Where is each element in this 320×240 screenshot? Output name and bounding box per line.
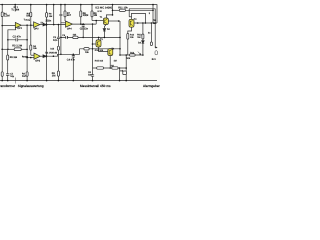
wire to R11 [113, 9, 120, 11]
resistor R6 [46, 13, 48, 18]
svg-text:1M: 1M [22, 75, 26, 78]
node OP1 output column [26, 24, 28, 26]
wire alarm exit [155, 23, 156, 48]
node x53.75 [53, 24, 55, 26]
svg-text:R15 10k: R15 10k [95, 59, 104, 62]
wire x126.2 column [125, 55, 127, 81]
resistor R1 [1, 12, 3, 17]
wire bottom ground rail [0, 80, 157, 82]
arrow into wire [138, 52, 141, 55]
resistor R11 [119, 9, 125, 11]
resistor R8b [91, 11, 93, 17]
node T3 base branch [92, 43, 94, 45]
svg-text:1M: 1M [26, 15, 29, 18]
wire C7 column from rail [60, 4, 62, 6]
node C4 top [73, 54, 75, 56]
node C5 top [82, 23, 84, 25]
wire D3 out [46, 49, 79, 56]
node R3 right [26, 49, 28, 51]
resistor R10m on mid wire [73, 36, 78, 38]
svg-text:C2 47n: C2 47n [13, 36, 22, 39]
svg-text:T.out: T.out [24, 19, 29, 22]
resistor R16 [112, 67, 118, 69]
node D1 out [46, 24, 48, 26]
svg-text:R16 10k: R16 10k [95, 49, 104, 52]
diode D1 [43, 23, 46, 26]
wire R1 to bottom [1, 17, 3, 72]
resistor R2t [30, 12, 32, 17]
resistor R4 [30, 45, 32, 50]
node R4 column top [30, 24, 32, 26]
resistor R6b [64, 11, 66, 17]
wire C3 to R8 [57, 39, 59, 47]
wire OP4 output [73, 23, 97, 25]
arrowhead exit [156, 47, 158, 49]
node R12 bottom [142, 54, 144, 56]
resistor R18 [1, 72, 3, 77]
wire OP3 output [40, 55, 43, 57]
svg-text:2,2M: 2,2M [4, 15, 10, 18]
node rail junction x2 [1, 4, 3, 6]
wire R7 column [80, 4, 82, 6]
wire mid row y48.8 [80, 48, 121, 50]
resistor R12 [142, 34, 144, 39]
wire long column x92.5 [92, 24, 94, 68]
capacitor C2 [8, 39, 27, 41]
svg-text:OP1: OP1 [17, 27, 22, 30]
wire OP1 output column down [26, 25, 28, 72]
node C3 column top [58, 24, 60, 26]
caption separator tick [15, 78, 17, 84]
node y68 x119.5 [119, 67, 121, 69]
wire T2 emitter down [128, 27, 132, 34]
svg-text:Messintervall 450 ms: Messintervall 450 ms [80, 84, 111, 88]
resistor R15 [97, 67, 104, 69]
text labels [4, 6, 157, 78]
capacitor C5 [82, 23, 84, 26]
op-amp OP1 [15, 22, 21, 28]
op-amp OP3 [34, 53, 40, 59]
wire x151.4 down [150, 23, 152, 42]
diode D3 [43, 55, 46, 58]
capacitor C3 [57, 37, 60, 38]
captions [0, 84, 160, 88]
resistor R5 [7, 55, 9, 60]
wire R8 down [57, 50, 59, 71]
svg-text:Transformer: Transformer [0, 84, 15, 88]
wire T1 collector [106, 15, 112, 19]
diode D4 [142, 41, 145, 44]
trimmer box [123, 71, 127, 75]
svg-text:Alarmgeber: Alarmgeber [143, 84, 160, 88]
wire T3 base [93, 43, 97, 45]
wire T1 emitter to D2 [104, 25, 106, 29]
resistor R9 [57, 71, 59, 76]
svg-text:OP3: OP3 [35, 59, 40, 62]
svg-text:Reset: Reset [22, 56, 28, 59]
wire nested loop B [132, 13, 146, 23]
svg-text:100k: 100k [83, 14, 89, 17]
wire R2 to rail [26, 76, 28, 80]
wire R5 to C1 [7, 60, 9, 74]
transistor T2 [129, 19, 134, 27]
wire x61.7 down to OP3 out [60, 23, 62, 55]
wire R9 to rail [57, 76, 59, 80]
wire D1 to OP4 [46, 24, 65, 26]
wire x53.7 column [53, 4, 55, 6]
svg-text:IC2 MC 14060: IC2 MC 14060 [95, 6, 112, 9]
resistor R17 [84, 48, 89, 50]
svg-text:1M: 1M [94, 14, 98, 17]
wire nested loop A jog [129, 16, 131, 18]
capacitor C6 [92, 68, 94, 75]
node C2 R3 left [7, 49, 9, 51]
resistor R3 [2, 48, 14, 50]
wire R4 column [30, 5, 32, 45]
wire D1 node down to rail [46, 25, 48, 81]
svg-text:OP4: OP4 [67, 28, 72, 31]
transistor T4 [108, 49, 113, 56]
resistor R14 [130, 54, 136, 56]
resistor R2 [26, 49, 28, 72]
node C2 right [26, 39, 28, 41]
svg-text:10n: 10n [53, 39, 58, 42]
wire T1 base [92, 20, 104, 22]
wire C7 to OP4 plus input [61, 16, 66, 23]
wire lower row y68 [93, 67, 127, 69]
wire T4 emitter down [109, 56, 111, 68]
connector box right edge [155, 51, 157, 55]
wire left column [1, 5, 3, 12]
wire T3 emitter to T4 base [99, 47, 108, 52]
op-amp OP2 [34, 22, 40, 28]
svg-text:1M: 1M [137, 36, 140, 39]
svg-text:Signalauswertung: Signalauswertung [18, 84, 44, 88]
transistor T3 [96, 40, 101, 47]
svg-text:4k7: 4k7 [67, 14, 72, 17]
wire D2 to mid wire [103, 31, 105, 37]
wire x119.5 to rail [119, 68, 121, 81]
wire R11 to right [125, 9, 153, 11]
wire R13 down [127, 39, 129, 55]
wire OP1 inverting input routing [8, 27, 16, 49]
wire top supply rail [0, 5, 157, 23]
resistor R13 [127, 34, 129, 40]
node long column x92.5 [92, 23, 94, 25]
wire R6b column [64, 4, 66, 6]
wire T3 collector to mid wire [98, 37, 100, 40]
wire IC1 supply stub [14, 5, 16, 12]
svg-text:Bz1: Bz1 [152, 58, 157, 61]
wire C3 column [57, 25, 59, 38]
wire T4 collector up [109, 48, 111, 50]
mid horizontal wire [61, 36, 120, 38]
svg-text:C5 22n: C5 22n [80, 28, 89, 31]
wire 10k feed from rail [112, 4, 114, 6]
capacitor C4 [72, 56, 75, 57]
resistor R8 [57, 46, 59, 50]
svg-text:C4 47n: C4 47n [67, 58, 76, 61]
wire x153 rail to T2 row [152, 5, 154, 23]
svg-text:10µ: 10µ [10, 75, 15, 78]
resistor R7 [80, 11, 82, 17]
svg-text:1M: 1M [52, 74, 56, 77]
wire OP2 output [40, 24, 43, 26]
capacitor C1 [6, 74, 9, 75]
wire OP1 output [21, 24, 33, 26]
node R7 bottom on out wire [80, 23, 82, 25]
wire T2 base row [134, 22, 157, 24]
wire measure row y55 [120, 54, 143, 56]
wire OP4 out up to base [95, 21, 97, 25]
wire R12/D4 column [142, 23, 144, 34]
resistor R19 [150, 42, 152, 46]
svg-text:1N4148: 1N4148 [49, 51, 58, 54]
wire C5 down to mid wire [82, 26, 84, 37]
node R3 row left [1, 49, 3, 51]
wire OP1 plus input [2, 25, 15, 27]
wire R6 column [46, 4, 48, 6]
svg-text:1M: 1M [114, 60, 117, 63]
svg-text:R11 10k: R11 10k [118, 7, 128, 10]
capacitor C4m on mid wire [66, 36, 68, 39]
wire R12 to D4 [142, 39, 144, 41]
wire C1 to rail [7, 75, 9, 80]
wire nested loop A [129, 9, 155, 23]
svg-text:1M: 1M [111, 64, 114, 67]
svg-text:R3 2,2M: R3 2,2M [12, 45, 22, 48]
svg-text:220n: 220n [45, 20, 51, 23]
transistor T1 [103, 18, 108, 25]
wire mid wire right end down [119, 21, 121, 55]
wire R5 column [7, 49, 9, 55]
svg-text:OP2: OP2 [34, 27, 39, 30]
wire OP3 plus input [31, 54, 34, 56]
wire D4 to row [142, 43, 144, 55]
diode D2 [103, 29, 106, 31]
node mid row x92.5 [92, 48, 94, 50]
wire R8b column [91, 4, 93, 6]
svg-text:R5 33k: R5 33k [10, 56, 18, 59]
op-amp OP4 [66, 21, 73, 27]
svg-text:TL 084: TL 084 [11, 9, 20, 12]
node OP1 plus input [1, 25, 3, 27]
wire OP3 minus input [27, 57, 34, 59]
wire T1 right to x120 column [108, 20, 120, 22]
capacitor C7 [59, 14, 62, 15]
